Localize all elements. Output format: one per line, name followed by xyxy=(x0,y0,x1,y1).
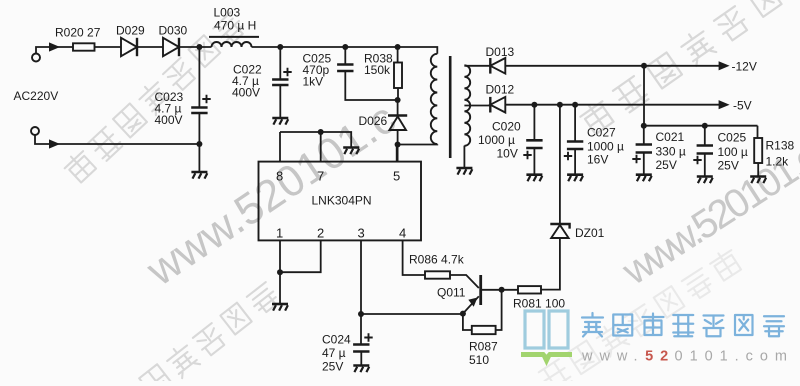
svg-text:C025: C025 xyxy=(718,131,747,145)
svg-text:25V: 25V xyxy=(656,158,677,172)
wire D030 to node A xyxy=(178,46,212,48)
wire D026 to drain node xyxy=(397,130,399,162)
svg-text:1000 µ: 1000 µ xyxy=(478,133,515,147)
wire feedback node to emitter xyxy=(361,313,463,315)
ground below C023 xyxy=(191,172,207,179)
junction C025 output node xyxy=(702,123,708,129)
junction emitter node xyxy=(460,311,466,317)
junction bottom rail node xyxy=(196,141,202,147)
svg-text:Q011: Q011 xyxy=(437,286,466,300)
wire C025 output to ground xyxy=(704,154,706,176)
capacitor C023 xyxy=(191,108,207,114)
junction drain node pin5 xyxy=(395,142,401,148)
wire pin4 down xyxy=(403,240,425,275)
svg-text:470 µ H: 470 µ H xyxy=(214,19,256,33)
diode D026 xyxy=(388,116,407,131)
junction C027 node xyxy=(572,102,578,108)
wire C027 branch xyxy=(574,105,576,141)
transistor Q011 emitter arrow xyxy=(468,298,477,307)
wire C023 to bottom rail xyxy=(198,113,200,171)
diode D029 xyxy=(121,38,137,56)
svg-text:R138: R138 xyxy=(766,139,795,153)
wire C025 output branch xyxy=(704,126,706,145)
watermark hanzi bottom-center xyxy=(138,279,281,386)
svg-text:DZ01: DZ01 xyxy=(575,226,605,240)
wire C024 to ground xyxy=(360,352,362,365)
polarity plus C021 xyxy=(632,155,640,163)
wire Q011 base lead xyxy=(481,289,502,291)
wire C025 to clamp node xyxy=(345,71,397,100)
svg-text:1000 µ: 1000 µ xyxy=(587,140,624,154)
capacitor C021 xyxy=(636,145,652,153)
capacitor C024 xyxy=(353,345,369,352)
svg-text:D013: D013 xyxy=(486,45,515,59)
watermark hanzi bottom-right xyxy=(537,246,744,386)
logo url 52 red xyxy=(644,348,669,363)
svg-text:47 µ: 47 µ xyxy=(322,346,346,360)
wire rail node B to node C xyxy=(345,46,397,48)
wire -5V line xyxy=(506,104,720,106)
wire input top xyxy=(36,47,73,54)
svg-text:5: 5 xyxy=(393,169,400,184)
wire node C to C025 xyxy=(344,47,346,64)
ground below C024 xyxy=(353,366,369,373)
junction pin1-2 node xyxy=(277,269,283,275)
svg-text:D029: D029 xyxy=(116,24,145,38)
wire primary bottom to drain node xyxy=(398,143,438,145)
transformer T1 primary winding xyxy=(431,54,438,144)
wire L003 to node B xyxy=(252,46,346,48)
resistor R038 xyxy=(394,63,402,89)
svg-text:400V: 400V xyxy=(155,113,183,127)
junction node B C022 xyxy=(277,44,283,50)
wire input bottom rail xyxy=(35,135,199,144)
ground source pins xyxy=(272,304,288,311)
svg-text:10V: 10V xyxy=(497,147,518,161)
svg-text:1kV: 1kV xyxy=(303,75,324,89)
resistor R081 xyxy=(518,286,541,293)
polarity plus C022 xyxy=(283,68,291,76)
svg-text:LNK304PN: LNK304PN xyxy=(312,194,372,208)
junction feedback node xyxy=(358,311,364,317)
wire C020 branch xyxy=(533,105,535,140)
polarity plus C024 xyxy=(364,333,372,341)
wire C022 to ground xyxy=(279,85,281,117)
polarity plus C025 output xyxy=(693,156,701,164)
svg-text:16V: 16V xyxy=(587,153,608,167)
wire C021 rail xyxy=(644,125,758,127)
ground below C027 xyxy=(567,175,583,182)
wire R020 to D029 xyxy=(95,46,122,48)
wire node D to R038 xyxy=(397,47,399,63)
svg-text:8: 8 xyxy=(276,169,283,184)
ground below secondary xyxy=(456,168,472,175)
inductor L003 bar xyxy=(209,36,259,38)
terminal input bottom xyxy=(31,127,39,135)
capacitor C027 xyxy=(567,142,583,150)
inductor L003 coil xyxy=(212,42,252,47)
diode D013 xyxy=(490,58,505,74)
wire pin7 up xyxy=(320,132,322,162)
wire DZ01 to R081 xyxy=(541,238,560,290)
svg-text:3: 3 xyxy=(358,226,365,241)
wire R138 to ground xyxy=(757,163,759,176)
transistor Q011 bar xyxy=(479,275,482,305)
junction C021 node xyxy=(641,123,647,129)
wire rail to R138 xyxy=(757,126,759,138)
svg-text:L003: L003 xyxy=(214,6,241,20)
ground below C021 xyxy=(636,175,652,182)
junction C020 node xyxy=(531,102,537,108)
wire secondary top tap to D013 xyxy=(464,65,490,67)
diode D012 xyxy=(490,97,505,113)
svg-text:AC220V: AC220V xyxy=(14,89,59,103)
ground below R138 xyxy=(750,177,766,184)
svg-text:1.2k: 1.2k xyxy=(766,155,790,169)
diode D030 xyxy=(163,38,179,56)
capacitor C025 snubber xyxy=(337,65,353,72)
resistor R138 xyxy=(754,138,762,163)
svg-text:4: 4 xyxy=(399,226,406,241)
wire pin1 down xyxy=(279,240,281,303)
wire -12V feed vertical xyxy=(643,66,645,126)
wire pin8 up xyxy=(279,132,281,162)
op-amp U1 LNK304PN box xyxy=(259,162,422,241)
wire R038 to clamp node xyxy=(397,88,399,100)
wire pin2 down xyxy=(280,240,321,272)
wire DZ01 feed xyxy=(559,105,561,224)
svg-text:R086 4.7k: R086 4.7k xyxy=(409,253,465,267)
wire C027 to ground xyxy=(574,149,576,174)
wire pin3 down xyxy=(360,240,362,344)
svg-text:2: 2 xyxy=(317,226,324,241)
logo text 家电维修资料网 xyxy=(582,313,784,337)
junction base node xyxy=(499,287,505,293)
svg-text:R087: R087 xyxy=(469,340,498,354)
wire base node to R081 xyxy=(502,289,518,291)
arrowhead input bottom xyxy=(49,139,60,148)
wire pin5 up xyxy=(396,145,398,162)
junction -12V feed node xyxy=(641,63,647,69)
junction node A xyxy=(196,44,202,50)
svg-text:C027: C027 xyxy=(587,126,616,140)
logo book icon xyxy=(522,311,572,365)
arrowhead -12V xyxy=(719,61,730,70)
polarity plus C023 xyxy=(202,95,210,103)
capacitor C025 output xyxy=(697,146,713,154)
resistor R020 xyxy=(73,43,95,50)
svg-text:C020: C020 xyxy=(492,120,521,134)
svg-text:150k: 150k xyxy=(364,63,391,77)
svg-text:25V: 25V xyxy=(718,159,739,173)
transformer T1 core xyxy=(449,56,452,158)
svg-text:1: 1 xyxy=(276,226,283,241)
wire pin7-8 header xyxy=(280,132,351,147)
capacitor C020 xyxy=(526,140,542,148)
svg-text:D030: D030 xyxy=(159,24,188,38)
terminal input top xyxy=(32,54,40,62)
wire D029 to D030 xyxy=(136,46,163,48)
svg-text:25V: 25V xyxy=(322,360,343,374)
watermark hanzi top-left xyxy=(61,9,247,185)
ground bypass pins xyxy=(343,148,359,155)
wire emitter to R087 xyxy=(463,314,472,330)
polarity plus C027 xyxy=(564,152,572,160)
svg-text:R020 27: R020 27 xyxy=(55,26,101,40)
wire secondary mid tap to D012 xyxy=(464,105,490,107)
svg-text:R081 100: R081 100 xyxy=(513,297,565,311)
arrowhead input top xyxy=(49,42,60,51)
resistor R086 xyxy=(425,271,450,278)
svg-text:400V: 400V xyxy=(232,86,260,100)
junction node D R038 top xyxy=(395,44,401,50)
wire node B to C022 xyxy=(279,47,281,79)
ground below C022 xyxy=(272,118,288,125)
wire C020 to ground xyxy=(533,148,535,174)
wire node D to transformer primary top xyxy=(398,47,438,54)
ground below C025 output xyxy=(697,177,713,184)
svg-text:C024: C024 xyxy=(322,333,351,347)
wire -12V line xyxy=(506,65,720,67)
svg-text:-5V: -5V xyxy=(733,99,752,113)
ground below C020 xyxy=(526,175,542,182)
wire clamp node to D026 xyxy=(397,100,399,116)
wire node A to C023 xyxy=(198,47,200,107)
watermark hanzi top-right xyxy=(577,0,782,137)
junction node C C025 xyxy=(342,44,348,50)
junction DZ01 node xyxy=(557,102,563,108)
resistor R087 xyxy=(472,326,496,334)
junction clamp node xyxy=(395,97,401,103)
capacitor C022 xyxy=(272,80,288,86)
wire secondary bottom to ground xyxy=(463,146,465,167)
svg-text:100 µ: 100 µ xyxy=(718,145,748,159)
svg-text:-12V: -12V xyxy=(732,60,757,74)
junction pin7 node xyxy=(318,129,324,135)
wire Q011 emitter lead xyxy=(463,296,479,313)
arrowhead -5V xyxy=(719,100,730,109)
wire R087 to base node xyxy=(496,290,502,330)
wire C021 to ground xyxy=(643,153,645,174)
svg-text:D026: D026 xyxy=(359,114,388,128)
svg-text:330 µ: 330 µ xyxy=(656,145,686,159)
zener diode DZ01 xyxy=(550,224,569,238)
svg-text:D012: D012 xyxy=(486,83,515,97)
polarity plus C020 xyxy=(523,151,531,159)
wire C021 branch xyxy=(643,126,645,144)
svg-text:7: 7 xyxy=(317,169,324,184)
wire R086 to collector xyxy=(450,275,479,288)
transformer T1 secondary winding xyxy=(464,65,470,146)
svg-text:C021: C021 xyxy=(656,130,685,144)
svg-text:510: 510 xyxy=(469,353,489,367)
